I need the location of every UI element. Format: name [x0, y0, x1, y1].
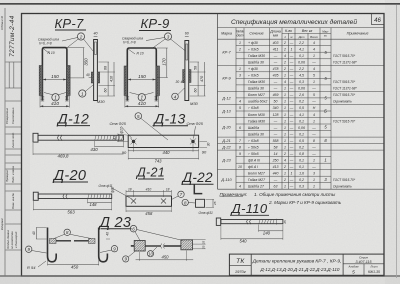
hole X right: [161, 199, 166, 204]
dim 50 edge-hole: [128, 150, 133, 152]
leader circle 2 to side bar: [84, 39, 94, 51]
label R10: [128, 49, 135, 54]
leader circle 3 to bracket: [152, 39, 166, 49]
top plate weld block left (hatched): [50, 239, 57, 244]
bottom sheet line: [0, 275, 400, 276]
left strip outer line: [4, 8, 6, 276]
left assembly: right J-bar: [99, 228, 108, 262]
table header grid: [218, 28, 385, 190]
dimension 150 inner width: [128, 79, 156, 81]
count columns: [283, 41, 294, 189]
length column: [272, 41, 279, 189]
side view hatched blocks: [183, 70, 185, 83]
dim 25 right of square: [212, 199, 214, 207]
connecting rod: [145, 245, 161, 247]
title block outline: [229, 254, 384, 275]
detail numbers column: [238, 41, 242, 189]
shaft break marks: [247, 219, 252, 224]
КР-7 bracket front view outline: [42, 48, 67, 101]
table row lines: [218, 46, 385, 183]
header underline: [138, 178, 164, 180]
stamp cell texts: [5, 107, 15, 209]
Д-21 plate: [126, 196, 172, 206]
dimension 40 above side bar: [94, 35, 98, 37]
callout circle 3: [164, 33, 171, 40]
thread marks left rod tip: [41, 97, 45, 102]
Д-23 side assembly: left plate (hatched): [134, 241, 145, 252]
side view inner plate: [186, 44, 188, 60]
dim 450 left assembly: [48, 264, 99, 266]
angle cross-section square: [196, 199, 205, 207]
bolt shaft Д-20: [38, 194, 112, 199]
thread section Д-110: [259, 219, 277, 225]
bolt shaft Д-110: [221, 220, 283, 224]
КР-9 bracket front view outline: [127, 48, 156, 101]
page number box: [372, 14, 385, 25]
thread marks right rod tip: [155, 97, 159, 102]
right dim chain 60/60: [107, 62, 109, 96]
shaft break marks: [63, 194, 68, 200]
left side plate (hatched): [39, 66, 42, 96]
right dim chain 50/60: [197, 62, 199, 96]
dim 42 left: [118, 134, 120, 142]
dim 40 right: [106, 228, 110, 230]
outer dim 470 vertical: [204, 62, 206, 96]
mark weight column: [324, 50, 327, 182]
mark labels: [220, 50, 232, 183]
callout circle 7: [178, 191, 184, 197]
header underline: [55, 29, 86, 31]
right plate (hatched): [181, 240, 193, 250]
callout circle 8: [182, 199, 188, 205]
section column: [248, 41, 267, 189]
dimension 469 total: [33, 153, 124, 155]
callout circle 9 left: [26, 246, 32, 252]
thread marks left rod tip: [126, 97, 130, 102]
dimension 150 inner width: [43, 79, 66, 81]
right paper edge line: [396, 5, 398, 278]
bolt shaft Д-12: [38, 135, 124, 140]
callout circle 8 top: [64, 229, 70, 235]
header underline: [230, 214, 269, 216]
sheet top edge band: [0, 3, 400, 5]
dimension 170 vertical: [166, 48, 168, 78]
edge shading: [0, 0, 30, 284]
dimension 563 total: [33, 208, 111, 210]
stamp boxes lines: [6, 62, 22, 250]
stamp cell divider: [250, 254, 252, 275]
bolt head Д-12: [33, 133, 38, 142]
dimension 430 thread: [95, 145, 124, 147]
header underline: [182, 183, 214, 185]
dimension 350 vertical: [82, 48, 84, 78]
hole X left: [131, 199, 136, 204]
angle profile mark: [194, 185, 202, 194]
thread section Д-12: [95, 136, 123, 140]
callout circle 9 right: [111, 246, 117, 252]
dim 450 rod assembly: [136, 259, 194, 261]
callout circle 4: [172, 93, 179, 100]
outer dim 410 vertical: [113, 62, 115, 96]
left assembly: left J-bar: [48, 228, 57, 262]
rod stub left: [131, 245, 134, 247]
label R10: [44, 49, 51, 54]
КР-7 side view bar: [94, 40, 98, 101]
top plate weld block right (hatched): [89, 239, 96, 244]
dimension 148 thread: [88, 201, 112, 203]
leader weld note to circle 2: [62, 38, 78, 42]
leader weld note to circle 3: [146, 38, 165, 41]
left side plate (hatched): [124, 66, 127, 96]
table outline: [218, 14, 385, 190]
right side plate (hatched): [67, 66, 70, 96]
callout circle 2: [77, 33, 84, 40]
dimension 410 bottom: [125, 105, 159, 107]
right side plate (hatched): [156, 66, 159, 96]
dimension 60 above: [185, 35, 189, 37]
leaders circle 1 to rod tips: [44, 93, 53, 95]
header underline: [139, 30, 171, 32]
dim 740 total: [128, 158, 198, 160]
leader circle 2 to bracket corner: [66, 39, 79, 49]
department stamp text: [6, 229, 18, 249]
bolt head Д-20: [33, 192, 38, 200]
dimension 410 bottom: [40, 105, 69, 107]
side view inner plate line: [95, 42, 97, 55]
dimension 240 thread: [259, 230, 283, 232]
callout circle 6: [130, 225, 137, 232]
dimension 540 total: [221, 238, 283, 240]
thread section Д-20: [88, 194, 110, 198]
callout circle 1 under bracket: [52, 94, 59, 101]
callout circle 9: [123, 256, 129, 262]
hole right: [191, 140, 194, 143]
shaft break marks: [57, 135, 62, 141]
bolt head Д-110: [216, 218, 220, 225]
dim 440 holes: [134, 150, 194, 152]
connecting plate segments: [56, 240, 71, 242]
dim 40 left: [36, 228, 38, 240]
header underline: [53, 181, 88, 183]
header underline: [101, 228, 132, 230]
table header texts: [221, 29, 368, 38]
КР-9 side view bar: [185, 41, 189, 101]
weight columns: [298, 41, 316, 189]
remark column: [333, 54, 357, 189]
leader circle 3 to side bar: [171, 39, 186, 51]
header underline: [153, 125, 189, 127]
hole left: [132, 140, 135, 143]
side view hatched blocks: [91, 72, 93, 83]
callout circle 5: [135, 113, 142, 120]
leaders circle 8 to blocks: [54, 234, 65, 238]
header underline: [57, 125, 90, 127]
leaders circle 1 to rod tips: [130, 93, 140, 95]
right end dim lines: [192, 238, 205, 240]
thread marks right rod tip: [65, 97, 69, 102]
callout circle 1 side view: [79, 90, 86, 97]
dim 458 below: [126, 210, 172, 212]
callout circle 1 under bracket: [138, 94, 145, 101]
Д-13 plate: [128, 135, 198, 147]
dims 18 410 18 above: [126, 191, 172, 193]
callout circle 10: [147, 251, 153, 257]
leaders circle 6: [135, 232, 140, 241]
